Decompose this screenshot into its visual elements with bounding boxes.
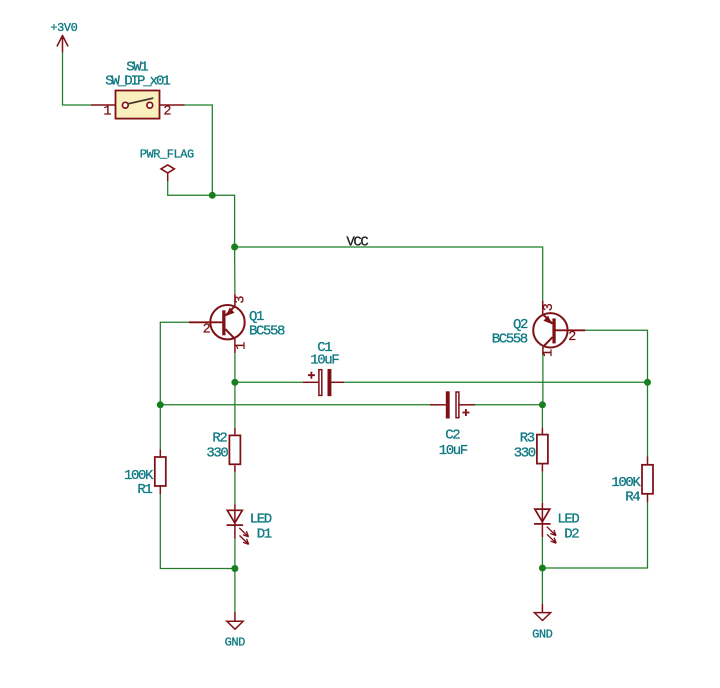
capacitor C1 bbox=[303, 340, 344, 396]
svg-text:D1: D1 bbox=[257, 526, 272, 542]
base bar bbox=[222, 310, 225, 335]
base line + pin 2 bbox=[554, 329, 585, 331]
transistor Q2 (BC558 PNP, mirrored) bbox=[492, 301, 585, 357]
svg-text:GND: GND bbox=[532, 628, 553, 642]
wire R3 to D2 bbox=[541, 472, 543, 503]
svg-text:PWR_FLAG: PWR_FLAG bbox=[140, 148, 194, 162]
right plate (hollow, +) bbox=[456, 392, 459, 418]
svg-text:3: 3 bbox=[542, 303, 557, 311]
light arrow 1 bbox=[547, 527, 556, 536]
collector diagonal (top) bbox=[543, 314, 553, 323]
svg-text:+3V0: +3V0 bbox=[50, 21, 77, 35]
wire C2 row right bbox=[475, 404, 542, 406]
junction D1/R1/GND bbox=[231, 565, 238, 572]
svg-text:R4: R4 bbox=[625, 489, 640, 505]
triangle bbox=[227, 510, 242, 523]
pin 3 (top) bbox=[542, 301, 544, 315]
emitter diagonal (bottom) bbox=[543, 337, 553, 347]
wire to GND left bbox=[234, 569, 236, 613]
pin 2 stub bbox=[160, 104, 185, 106]
junction Q1 emitter / C1 bbox=[231, 379, 238, 386]
pin 1 stub bbox=[91, 104, 115, 106]
power flag PWR_FLAG bbox=[140, 148, 194, 181]
wire C1 row right bbox=[344, 381, 647, 383]
svg-text:3: 3 bbox=[234, 295, 249, 303]
svg-text:10uF: 10uF bbox=[310, 353, 339, 369]
body bbox=[116, 91, 160, 119]
svg-text:10uF: 10uF bbox=[439, 443, 468, 459]
svg-text:1: 1 bbox=[103, 105, 111, 120]
plus sign bbox=[462, 409, 469, 416]
wire D2 to bottom junction bbox=[541, 537, 543, 568]
lever bbox=[128, 98, 152, 104]
svg-text:LED: LED bbox=[557, 512, 579, 528]
left plate (hollow, +) bbox=[319, 370, 322, 396]
svg-text:GND: GND bbox=[225, 635, 246, 649]
pin stubs bbox=[303, 381, 318, 383]
LED D2 bbox=[534, 503, 579, 543]
svg-text:2: 2 bbox=[568, 330, 576, 345]
junction C2 / Q2 emitter bbox=[539, 401, 546, 408]
emitter diagonal (bottom) bbox=[225, 329, 235, 339]
svg-text:R3: R3 bbox=[520, 430, 535, 446]
wire R2 to D1 bbox=[234, 472, 236, 504]
light arrow 2 bbox=[240, 536, 249, 545]
wire Q2 emitter node to R3 bbox=[541, 405, 543, 428]
junction C1 right / R4 column bbox=[644, 379, 651, 386]
pin 1 (bottom) bbox=[234, 339, 236, 353]
wire Q1 emitter down to C1 node bbox=[234, 353, 236, 382]
wire +3V0 to SW1 pin1 bbox=[63, 52, 92, 105]
triangle bbox=[535, 509, 550, 522]
svg-text:R2: R2 bbox=[212, 430, 227, 446]
emitter arrow head bbox=[226, 308, 235, 317]
resistor R2 bbox=[206, 428, 240, 473]
wire Q1 emitter node down to R2 bbox=[234, 382, 236, 428]
emitter arrow head bbox=[543, 316, 552, 325]
wire to GND right bbox=[541, 568, 543, 604]
svg-text:1: 1 bbox=[541, 349, 556, 357]
svg-text:2: 2 bbox=[203, 322, 211, 337]
right plate (filled) bbox=[328, 369, 332, 396]
junction R1/base row bbox=[157, 401, 164, 408]
base line + pin 2 bbox=[189, 321, 224, 323]
light arrow 2 bbox=[547, 534, 556, 543]
pin through bbox=[234, 505, 236, 539]
svg-text:BC558: BC558 bbox=[492, 332, 528, 348]
base bar bbox=[552, 318, 555, 343]
ground GND right bbox=[532, 604, 553, 642]
wire VCC rail bbox=[235, 247, 543, 301]
pin stubs bbox=[430, 404, 446, 406]
junction at PWR_FLAG node bbox=[209, 192, 216, 199]
svg-text:C2: C2 bbox=[445, 428, 460, 444]
wire Q1 base to left column bbox=[160, 322, 189, 405]
light arrow 1 bbox=[239, 528, 248, 537]
switch SW1 bbox=[91, 59, 185, 119]
collector diagonal (top) bbox=[225, 306, 235, 315]
LED D1 bbox=[227, 505, 272, 545]
wire Q2 emitter down bbox=[542, 355, 544, 405]
wire R4 chain bbox=[542, 382, 647, 568]
svg-text:R1: R1 bbox=[137, 482, 152, 498]
plus sign bbox=[308, 372, 315, 379]
svg-text:LED: LED bbox=[250, 512, 272, 528]
resistor R1 bbox=[124, 450, 166, 499]
wire junction to VCC rail bbox=[212, 195, 234, 247]
junction D2/R4/GND bbox=[539, 565, 546, 572]
wire row y=405 (C2 row) left bbox=[160, 404, 430, 406]
wire D1 to bottom junction bbox=[234, 539, 236, 569]
svg-text:SW_DIP_x01: SW_DIP_x01 bbox=[105, 73, 170, 89]
wire VCC junction down to Q1 bbox=[234, 247, 236, 294]
cathode bar bbox=[227, 524, 244, 526]
svg-text:VCC: VCC bbox=[346, 235, 368, 251]
svg-text:330: 330 bbox=[206, 445, 228, 461]
svg-text:D2: D2 bbox=[564, 526, 579, 542]
wire C1 row left bbox=[235, 381, 303, 383]
wire SW1 pin2 down to junction bbox=[185, 105, 213, 195]
wire R1 chain bbox=[160, 405, 235, 569]
svg-text:BC558: BC558 bbox=[249, 323, 285, 339]
resistor R4 bbox=[611, 457, 653, 506]
junction VCC left bbox=[231, 244, 238, 251]
pin 3 (top) bbox=[234, 294, 236, 306]
wire Q2 base to right column bbox=[585, 330, 648, 382]
pin 1 (bottom) bbox=[542, 347, 544, 355]
ground GND left bbox=[225, 612, 246, 649]
svg-text:2: 2 bbox=[163, 105, 171, 120]
svg-text:1: 1 bbox=[235, 342, 250, 350]
resistor R3 bbox=[514, 428, 548, 472]
svg-text:330: 330 bbox=[514, 445, 536, 461]
transistor Q1 (BC558 PNP) bbox=[189, 294, 285, 353]
pin through bbox=[541, 503, 543, 537]
wire PWR_FLAG to junction bbox=[168, 181, 213, 195]
contact circles bbox=[122, 102, 128, 108]
capacitor C2 bbox=[430, 391, 475, 459]
power symbol +3V0 bbox=[50, 21, 77, 52]
cathode bar bbox=[534, 523, 551, 525]
left plate (filled) bbox=[446, 391, 450, 418]
